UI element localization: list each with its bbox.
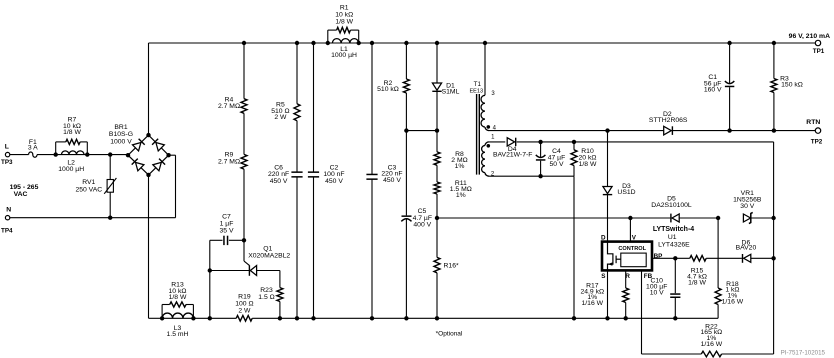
terminal L TP3: [5, 152, 9, 156]
resistor R22 165 kOhm 1% 1/16 W: [701, 351, 721, 357]
node: C5 bottom: [404, 316, 408, 320]
node: C1 ends: [727, 128, 731, 132]
node: L1 junctions: [326, 41, 330, 45]
U1 internal MOSFET: [608, 242, 613, 271]
svg-text:DA2S10100L: DA2S10100L: [651, 202, 692, 209]
wire: drain column: [607, 131, 609, 187]
node: VR1 right on chain: [771, 216, 775, 220]
svg-text:TP1: TP1: [813, 48, 825, 55]
T1 core: [476, 94, 478, 175]
wire: S pin to source rail: [607, 270, 609, 318]
svg-text:D: D: [601, 235, 606, 242]
svg-text:150 kΩ: 150 kΩ: [781, 81, 803, 88]
svg-text:*Optional: *Optional: [436, 331, 463, 338]
resistor R4 2.7 MOhm column: [243, 43, 245, 99]
wire: bias return line pin 2: [489, 175, 574, 177]
node: L3 junctions: [160, 316, 164, 320]
zener VR1 1N5256B 30 V: [743, 214, 750, 222]
node: C7 branch on source rail: [208, 316, 212, 320]
wire: drain stub line to right chain: [574, 141, 774, 143]
bridge diode top-right: [152, 138, 165, 151]
resistor R2 510 kOhm: [405, 43, 407, 79]
node: drain column top: [605, 128, 609, 132]
svg-text:U1: U1: [668, 234, 677, 241]
T1 primary phase dot: [487, 125, 491, 129]
node: R2 bottom / sense line start: [404, 128, 408, 132]
svg-text:BP: BP: [654, 253, 663, 260]
wire: V pin drop: [629, 218, 631, 253]
svg-text:450 V: 450 V: [270, 178, 288, 185]
svg-text:2.7 MΩ: 2.7 MΩ: [218, 158, 240, 165]
capacitor C3 220 nF 450 V column: [371, 43, 373, 174]
svg-text:EE13: EE13: [469, 89, 483, 95]
node: R4 top: [242, 41, 246, 45]
capacitor C6 220 nF 450 V: [291, 171, 302, 173]
terminal 96V TP1: [815, 40, 820, 45]
svg-text:B10S-G: B10S-G: [109, 131, 133, 138]
wire: FB pin down and bottom feedback line: [641, 270, 643, 354]
svg-text:450 V: 450 V: [383, 177, 401, 184]
svg-text:96 V, 210 mA: 96 V, 210 mA: [789, 33, 830, 40]
capacitor C4 47 uF 50 V: [540, 142, 542, 157]
node: V pin junction: [628, 216, 632, 220]
svg-text:2 W: 2 W: [238, 307, 251, 314]
svg-text:BR1: BR1: [114, 124, 127, 131]
node: C10 top: [673, 256, 677, 260]
svg-text:100 Ω: 100 Ω: [235, 300, 253, 307]
resistor R9 2.7 MOhm: [241, 154, 247, 169]
diode D3 US1D: [603, 187, 612, 194]
svg-text:US1D: US1D: [617, 189, 635, 196]
svg-text:1 µF: 1 µF: [220, 220, 234, 227]
resistor R7 10 kOhm (parallel loop over L2): [55, 142, 57, 155]
transformer T1 EE13: [484, 43, 486, 95]
node: C6 bottom: [295, 316, 299, 320]
node: R16 bottom: [435, 316, 439, 320]
svg-text:R1: R1: [340, 5, 349, 12]
svg-text:1000 V: 1000 V: [110, 138, 132, 145]
svg-text:2.7 MΩ: 2.7 MΩ: [218, 103, 240, 110]
node: D6 right on chain: [771, 256, 775, 260]
wire: drain line from pin 4: [489, 130, 664, 132]
svg-text:195 - 265: 195 - 265: [10, 184, 39, 191]
resistor R8 2 MOhm 1%: [436, 131, 438, 152]
svg-text:250 VAC: 250 VAC: [75, 186, 102, 193]
wire: bottom source rail: [149, 317, 163, 319]
node: C3 bottom: [370, 316, 374, 320]
IC U1 LYT4326E LYTSwitch-4: [602, 242, 652, 271]
svg-text:450 V: 450 V: [325, 178, 343, 185]
bridge diode bottom-right: [153, 158, 166, 171]
svg-text:1%: 1%: [456, 192, 466, 199]
resistor R10 20 kOhm 1/8 W: [573, 142, 575, 150]
diode D6 BAV20: [742, 254, 743, 263]
svg-text:1%: 1%: [455, 163, 465, 170]
node: divider tap to V line: [435, 216, 439, 220]
svg-text:160 V: 160 V: [704, 87, 722, 94]
capacitor C7 1 uF 35 V: [210, 239, 223, 241]
bridge rectifier BR1 B10S-G diamond: [128, 135, 169, 175]
node: RV1 top junction: [108, 152, 112, 156]
svg-text:N: N: [6, 206, 11, 213]
svg-text:10 kΩ: 10 kΩ: [335, 12, 353, 19]
resistor R3 150 kOhm: [773, 43, 775, 79]
node: RV1 bottom on N line: [108, 216, 112, 220]
wire: bridge + output stem: [148, 43, 150, 135]
inductor L2 1000 uH: [62, 151, 85, 155]
bridge diode top-left: [132, 138, 145, 151]
diode D2 STTH2R06S on RTN line: [664, 126, 673, 135]
wire: Q1 gate: [243, 240, 245, 261]
svg-text:T1: T1: [474, 81, 482, 88]
svg-text:3 A: 3 A: [28, 145, 38, 152]
wire: right chain vertical: [773, 142, 775, 354]
fuse F1: [29, 152, 37, 157]
thyristor Q1 X020MA2BL2: [210, 270, 249, 272]
svg-text:1/8 W: 1/8 W: [335, 19, 353, 26]
inductor L1 1000 uH on top rail: [332, 39, 358, 43]
svg-text:50 V: 50 V: [550, 161, 564, 168]
node: R10 top: [572, 140, 576, 144]
svg-text:S: S: [601, 273, 605, 280]
svg-text:CONTROL: CONTROL: [618, 246, 646, 252]
svg-text:TP3: TP3: [1, 159, 13, 166]
wire: L input line: [10, 154, 29, 156]
svg-text:STTH2R06S: STTH2R06S: [649, 117, 688, 124]
wire: top DC+ rail: [149, 42, 816, 44]
svg-text:1/8 W: 1/8 W: [688, 279, 706, 286]
svg-text:1000 µH: 1000 µH: [331, 52, 357, 59]
node: R3 bottom: [772, 128, 776, 132]
svg-text:BAV20: BAV20: [736, 245, 757, 252]
svg-text:400 V: 400 V: [413, 222, 431, 229]
wire: C7/Q1 branch vertical: [209, 240, 211, 318]
svg-text:1/8 W: 1/8 W: [169, 294, 187, 301]
resistor R18 1 kOhm 1% 1/16 W: [717, 218, 719, 288]
wire: sense node segment: [406, 130, 437, 132]
svg-text:1/16 W: 1/16 W: [582, 300, 604, 307]
bridge diode bottom-left: [131, 158, 144, 171]
svg-text:LYT4326E: LYT4326E: [658, 242, 690, 249]
svg-text:30 V: 30 V: [740, 203, 754, 210]
varistor RV1 250 VAC: [109, 155, 111, 180]
svg-text:LYTSwitch-4: LYTSwitch-4: [653, 226, 694, 233]
svg-text:PI-7517-102015: PI-7517-102015: [781, 349, 826, 356]
svg-text:TP4: TP4: [1, 227, 13, 234]
resistor R13 10 kOhm loop over L3: [161, 305, 163, 319]
svg-text:510 kΩ: 510 kΩ: [377, 86, 399, 93]
svg-text:1.5 mH: 1.5 mH: [167, 331, 189, 338]
svg-text:S1ML: S1ML: [442, 89, 460, 96]
svg-text:BAV21W-7-F: BAV21W-7-F: [493, 152, 532, 159]
resistor R23 1.5 Ohm: [277, 288, 283, 302]
wire: bridge - stem down to source rail: [148, 175, 150, 318]
resistor R17 24.9 kOhm on R pin: [625, 270, 627, 288]
wire: BP line: [652, 257, 690, 259]
resistor R5 510 Ohm 2 W column: [296, 43, 298, 104]
node: C7 to gate column: [242, 238, 246, 242]
terminal N TP4: [5, 216, 9, 220]
node: C2 bottom: [311, 316, 315, 320]
wire: N line to bridge right: [10, 217, 176, 219]
diode D5 DA2S10100L: [670, 214, 671, 223]
node: fuse-L2 junction: [54, 152, 58, 156]
resistor R16 (optional): [436, 218, 438, 257]
svg-text:C7: C7: [222, 213, 231, 220]
resistor R1 10 kOhm loop over L1: [327, 30, 329, 43]
svg-text:1/16 W: 1/16 W: [701, 341, 723, 348]
svg-text:1000 µH: 1000 µH: [58, 166, 84, 173]
node: VR1-R18 junction: [716, 216, 720, 220]
capacitor C1 56 uF 160 V: [729, 43, 731, 84]
svg-text:L: L: [5, 143, 9, 150]
node: C4 bottom: [538, 174, 542, 178]
node: R23 on source rail: [278, 316, 282, 320]
svg-text:X020MA2BL2: X020MA2BL2: [248, 252, 290, 259]
svg-text:1/16 W: 1/16 W: [722, 299, 744, 306]
svg-text:10 V: 10 V: [650, 289, 664, 296]
resistor R19 100 Ohm 2 W on source rail: [236, 316, 252, 322]
wire: bias line to C4/R10: [541, 141, 574, 143]
svg-text:R23: R23: [260, 287, 273, 294]
terminal RTN TP2: [815, 128, 820, 133]
svg-text:RV1: RV1: [82, 179, 95, 186]
resistor R11 1.5 MOhm 1%: [434, 182, 440, 194]
svg-text:1/8 W: 1/8 W: [63, 129, 81, 136]
capacitor C10 100 uF 10 V: [674, 258, 676, 293]
node: C4 top: [538, 140, 542, 144]
capacitor C5 4.7 uF 400 V: [405, 131, 407, 216]
svg-text:1/8 W: 1/8 W: [579, 161, 597, 168]
wire: bias return down to source rail: [573, 176, 575, 318]
diode D1 S1ML: [436, 43, 438, 83]
wire: V sense line: [437, 217, 670, 219]
svg-text:VAC: VAC: [14, 191, 28, 198]
svg-text:R19: R19: [238, 293, 251, 300]
svg-text:RTN: RTN: [806, 119, 820, 126]
resistor R15 4.7 kOhm 1/8 W: [690, 256, 706, 262]
capacitor C2 100 nF 450 V column: [313, 43, 315, 172]
node: bias return on source rail: [572, 316, 576, 320]
node: bridge vertices: [146, 133, 150, 137]
svg-text:R16*: R16*: [444, 262, 459, 269]
T1 primary winding pins 3-4: [481, 95, 485, 127]
T1 bias winding pins 1-2: [485, 142, 489, 146]
node: Q1 cathode branch: [208, 268, 212, 272]
svg-text:35 V: 35 V: [220, 227, 234, 234]
svg-text:TP2: TP2: [811, 138, 823, 145]
inductor L3 1.5 mH on source rail: [162, 313, 193, 318]
T1 bias phase dot: [487, 144, 491, 148]
svg-text:2 W: 2 W: [274, 114, 287, 121]
node: D1-R8 junction: [435, 128, 439, 132]
node: L2-R7 right junction: [85, 152, 89, 156]
diode D4 BAV21W-7-F: [489, 141, 505, 143]
svg-text:1.5 Ω: 1.5 Ω: [258, 294, 274, 301]
